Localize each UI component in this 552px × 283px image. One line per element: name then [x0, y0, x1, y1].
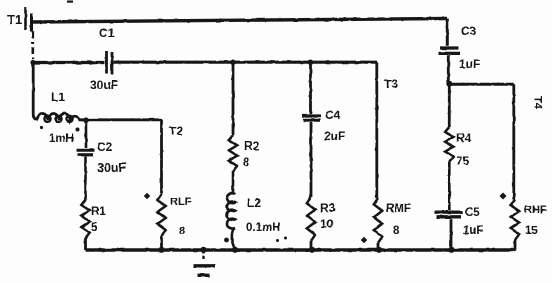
svg-text:1mH: 1mH	[49, 133, 74, 145]
svg-text:R1: R1	[91, 206, 106, 218]
svg-text:30uF: 30uF	[97, 161, 127, 175]
svg-text:C2: C2	[97, 140, 113, 154]
svg-text:75: 75	[456, 154, 470, 168]
svg-text:15: 15	[525, 225, 538, 237]
svg-text:1uF: 1uF	[463, 225, 483, 237]
svg-text:RHF: RHF	[524, 204, 547, 216]
svg-text:L1: L1	[51, 90, 65, 104]
svg-text:10: 10	[320, 217, 334, 231]
svg-text:RLF: RLF	[170, 196, 192, 208]
svg-text:T3: T3	[384, 77, 398, 91]
svg-text:C5: C5	[465, 207, 480, 219]
svg-text:R4: R4	[456, 131, 472, 145]
svg-text:5: 5	[91, 222, 98, 234]
svg-text:8: 8	[393, 225, 400, 237]
svg-text:L2: L2	[247, 196, 261, 210]
svg-text:30uF: 30uF	[90, 78, 118, 92]
svg-text:8: 8	[179, 225, 185, 237]
svg-text:1uF: 1uF	[459, 57, 480, 71]
svg-text:8: 8	[243, 157, 250, 169]
svg-text:0.1mH: 0.1mH	[246, 222, 281, 234]
svg-text:R2: R2	[244, 139, 260, 153]
svg-text:C3: C3	[461, 24, 477, 38]
svg-text:T2: T2	[169, 124, 183, 138]
svg-text:RMF: RMF	[386, 203, 411, 215]
svg-text:R3: R3	[320, 201, 336, 215]
svg-text:2uF: 2uF	[324, 129, 345, 143]
svg-text:C4: C4	[325, 108, 341, 122]
svg-text:T4: T4	[532, 96, 544, 110]
svg-text:T1: T1	[7, 12, 22, 27]
svg-text:C1: C1	[99, 26, 115, 40]
